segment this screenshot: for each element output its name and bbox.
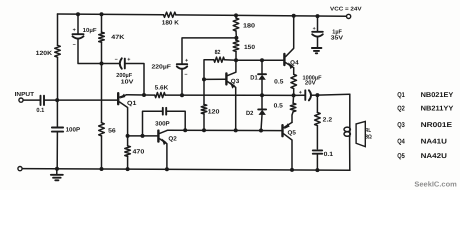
wire 100P to ground rail	[56, 132, 58, 169]
svg-text:+: +	[127, 57, 130, 63]
junction bias node	[100, 62, 104, 66]
wire node to Q4 base	[236, 59, 283, 61]
svg-text:−: −	[115, 57, 118, 63]
parts list Q4 NA41U	[397, 139, 447, 146]
svg-text:Q2: Q2	[168, 135, 177, 142]
junction bottom rail / Q5 collector	[290, 168, 294, 172]
wire 0.1 to ground rail	[316, 154, 318, 170]
svg-text:D2: D2	[246, 110, 254, 117]
svg-text:10µF: 10µF	[83, 27, 97, 34]
parts list Q1 NB021EY	[397, 92, 453, 99]
wire 150 to Q3 collector node	[235, 52, 237, 61]
junction top rail / 10uF	[76, 12, 80, 16]
diode D2	[246, 95, 266, 130]
transistor Q3	[226, 60, 239, 130]
wire 300P left	[143, 111, 163, 136]
resistor 2.2	[315, 112, 321, 125]
svg-text:56: 56	[108, 127, 116, 134]
transistor Q2	[158, 130, 177, 169]
svg-text:82: 82	[215, 49, 221, 56]
junction zobel / speaker	[315, 93, 319, 97]
capacitor 0.1 input coupling	[36, 96, 44, 114]
resistor 47K	[99, 32, 105, 42]
wire rail to 10uF	[77, 14, 79, 34]
transistor Q5	[283, 122, 297, 169]
ground terminal (input return)	[18, 167, 22, 171]
wire input node to 100P	[56, 100, 58, 127]
wire 0.5 to output node	[293, 89, 295, 96]
capacitor 1000uF 20V electrolytic	[294, 75, 322, 101]
svg-text:35V: 35V	[331, 35, 343, 42]
resistor 120K	[55, 45, 61, 57]
capacitor 300P	[143, 108, 186, 136]
speaker coupling coil	[344, 94, 350, 170]
svg-text:300P: 300P	[155, 121, 170, 128]
resistor 180K	[164, 12, 176, 17]
junction 180 / 150 / 220uF	[234, 36, 238, 40]
svg-text:NA42U: NA42U	[421, 153, 447, 160]
svg-text:1µF: 1µF	[332, 28, 342, 35]
wire Q4 emitter to 0.5	[293, 68, 295, 75]
junction top rail / Q4 collector	[292, 14, 296, 18]
svg-text:−: −	[184, 72, 187, 78]
transistor Q1	[118, 93, 137, 136]
junction 300P left	[141, 134, 145, 138]
junction D1 top	[260, 58, 264, 62]
svg-text:+: +	[185, 58, 188, 64]
input terminal	[19, 98, 23, 102]
resistor 120	[201, 104, 207, 114]
ground	[51, 169, 63, 181]
junction Q3 base / 120	[202, 77, 206, 81]
svg-text:100P: 100P	[66, 126, 81, 133]
junction input node	[55, 98, 59, 102]
junction bottom rail / 0.1	[315, 168, 319, 172]
junction top rail / 47K	[100, 12, 104, 16]
wire Q1 collector node to Q2 base	[128, 135, 159, 137]
wire rail to 1uF	[317, 16, 319, 32]
wire 180 to junction	[235, 31, 237, 38]
wire speaker top	[349, 94, 351, 127]
wire 2.2 to 0.1	[316, 126, 318, 149]
capacitor 1uF 35V electrolytic	[312, 16, 343, 41]
svg-text:0.5: 0.5	[274, 103, 284, 110]
svg-text:Q2: Q2	[397, 106, 405, 113]
capacitor 0.1 zobel	[313, 150, 334, 158]
resistor 82	[214, 57, 225, 62]
wire 470 to ground rail	[127, 156, 129, 169]
svg-text:−: −	[73, 43, 76, 49]
svg-text:Q5: Q5	[288, 130, 297, 137]
svg-text:0.1: 0.1	[324, 151, 334, 158]
svg-text:SeekIC.com: SeekIC.com	[414, 179, 456, 188]
wire bottom rail	[22, 169, 350, 171]
resistor 470	[125, 146, 131, 157]
capacitor 220uF electrolytic	[152, 58, 189, 95]
wire top rail left segment	[58, 13, 164, 16]
junction D2 bottom	[259, 129, 263, 133]
wire 10uF to bias node	[78, 39, 102, 63]
wire input terminal to 0.1	[23, 99, 40, 101]
svg-text:Q4: Q4	[290, 59, 299, 66]
svg-text:+: +	[299, 90, 302, 96]
ground (1uF)	[312, 48, 322, 53]
wire output node to 0.5 lower	[292, 95, 295, 103]
wire coil segment	[349, 127, 351, 136]
junction output node	[292, 93, 296, 97]
svg-text:47K: 47K	[111, 34, 125, 41]
wire 0.1 to Q1 base	[44, 99, 117, 101]
svg-text:+: +	[73, 27, 76, 33]
svg-text:Q5: Q5	[397, 153, 405, 160]
resistor 150	[233, 40, 239, 51]
junction top rail / 1uF	[316, 14, 320, 18]
svg-text:NA41U: NA41U	[421, 139, 447, 146]
junction 300P right	[183, 128, 187, 132]
wire node to 2.2	[316, 95, 318, 112]
wire 1000uF to zobel node	[311, 94, 317, 96]
resistor 56	[99, 123, 105, 136]
svg-text:180 K: 180 K	[162, 20, 180, 27]
junction 120 bottom	[202, 128, 206, 132]
svg-text:RL: RL	[365, 128, 371, 134]
svg-text:2.2: 2.2	[323, 116, 333, 123]
svg-text:0.5: 0.5	[274, 78, 284, 85]
transistor Q4	[284, 16, 299, 69]
svg-text:220µF: 220µF	[152, 64, 172, 71]
junction feedback / D1-D2 midpoint	[260, 93, 264, 97]
svg-text:8Ω: 8Ω	[365, 134, 372, 140]
svg-text:NB021EY: NB021EY	[421, 92, 454, 99]
capacitor 10uF electrolytic	[73, 27, 98, 48]
svg-text:D1: D1	[250, 75, 258, 82]
wire 200uF to Q1 emitter node	[125, 64, 144, 96]
wire rail to 47K	[101, 14, 103, 32]
svg-text:20V: 20V	[305, 80, 316, 87]
parts list Q5 NA42U	[397, 153, 447, 160]
speaker RL 8ohm	[356, 121, 372, 146]
wire 1uF to ground	[317, 37, 319, 47]
wire bias node down (crosses input line)	[101, 64, 103, 123]
junction feedback / 220uF	[180, 93, 184, 97]
svg-text:150: 150	[244, 44, 256, 51]
wire Q1 collector to 470	[127, 136, 129, 146]
wire 220uF bottom	[181, 69, 183, 95]
parts list Q2 NB211YY	[397, 106, 453, 113]
parts list Q3 NR001E	[397, 122, 452, 129]
wire to Q3 base	[204, 78, 225, 80]
capacitor 100P	[52, 126, 80, 133]
resistor 0.5 upper	[291, 74, 297, 88]
svg-text:NR001E: NR001E	[421, 122, 453, 129]
wire 82 to node	[224, 59, 236, 62]
svg-text:470: 470	[133, 148, 146, 155]
wire Q1 emitter to feedback node	[127, 94, 145, 96]
svg-text:VCC = 24V: VCC = 24V	[330, 7, 362, 13]
wire rail to 120K	[57, 14, 59, 45]
resistor 5.6K	[155, 93, 165, 98]
wire 0.5 lower to Q5 emitter	[292, 112, 293, 123]
junction bottom rail / Q2 emitter	[165, 167, 169, 171]
svg-text:Q1: Q1	[397, 92, 405, 99]
wire 220uF top to 180/150 junction	[182, 38, 237, 64]
junction Q3 emitter	[234, 128, 238, 132]
wire 47K to bias node	[101, 42, 103, 63]
svg-text:Q4: Q4	[397, 139, 405, 146]
wire 300P right	[166, 111, 185, 130]
svg-text:200µF: 200µF	[116, 72, 132, 79]
resistor 0.5 lower	[290, 103, 296, 112]
junction top rail / 180	[234, 13, 238, 17]
wire Q3 base node to 120	[203, 79, 205, 104]
wire Q2 collector to Q5 base	[167, 129, 282, 131]
junction Q1 collector / 470 / Q2 base	[126, 134, 130, 138]
svg-text:INPUT: INPUT	[15, 91, 35, 98]
wire speaker bottom	[349, 136, 351, 170]
wire 5.6K to output node (crosses risers)	[165, 94, 293, 96]
junction Q1 emitter / 200uF / 5.6K	[142, 93, 146, 97]
svg-text:5.6K: 5.6K	[155, 84, 169, 91]
wire 120 to Q5 base line	[203, 114, 205, 130]
wire D1 bottom	[261, 80, 263, 96]
wire rail to 180	[235, 15, 237, 18]
wire 120K to input node	[57, 57, 59, 100]
wire 82 to Q3 base node	[204, 60, 214, 80]
wire 56 to ground rail	[101, 136, 103, 169]
svg-text:120K: 120K	[36, 50, 53, 57]
capacitor 200uF 10V electrolytic	[102, 57, 134, 85]
svg-text:Q1: Q1	[127, 100, 137, 107]
junction bottom rail / 56	[100, 167, 104, 171]
wire output to 1000uF	[294, 94, 305, 96]
svg-text:+: +	[313, 26, 316, 32]
resistor 180	[233, 18, 239, 31]
wire to speaker drop	[317, 93, 349, 96]
wire top rail right segment	[176, 15, 347, 16]
wire D2 bottom	[261, 115, 262, 131]
svg-text:0.1: 0.1	[36, 107, 44, 114]
junction Q3 collector / 82 / Q4 base	[234, 58, 238, 62]
svg-text:180: 180	[243, 23, 256, 30]
svg-text:Q3: Q3	[397, 122, 405, 129]
svg-text:Q3: Q3	[231, 78, 240, 85]
wire D1 top	[261, 60, 263, 74]
wire to 5.6K	[144, 94, 155, 96]
svg-text:NB211YY: NB211YY	[421, 106, 454, 113]
svg-text:120: 120	[208, 108, 221, 115]
diode D1	[250, 60, 266, 95]
wire D2 top	[261, 95, 263, 109]
svg-text:10V: 10V	[121, 79, 134, 86]
wire bias node to 200uF	[102, 63, 120, 65]
junction bottom rail / 100P	[55, 167, 59, 171]
wire junction to 150	[235, 38, 237, 40]
VCC terminal	[347, 14, 351, 18]
junction bottom rail / 470	[126, 167, 130, 171]
